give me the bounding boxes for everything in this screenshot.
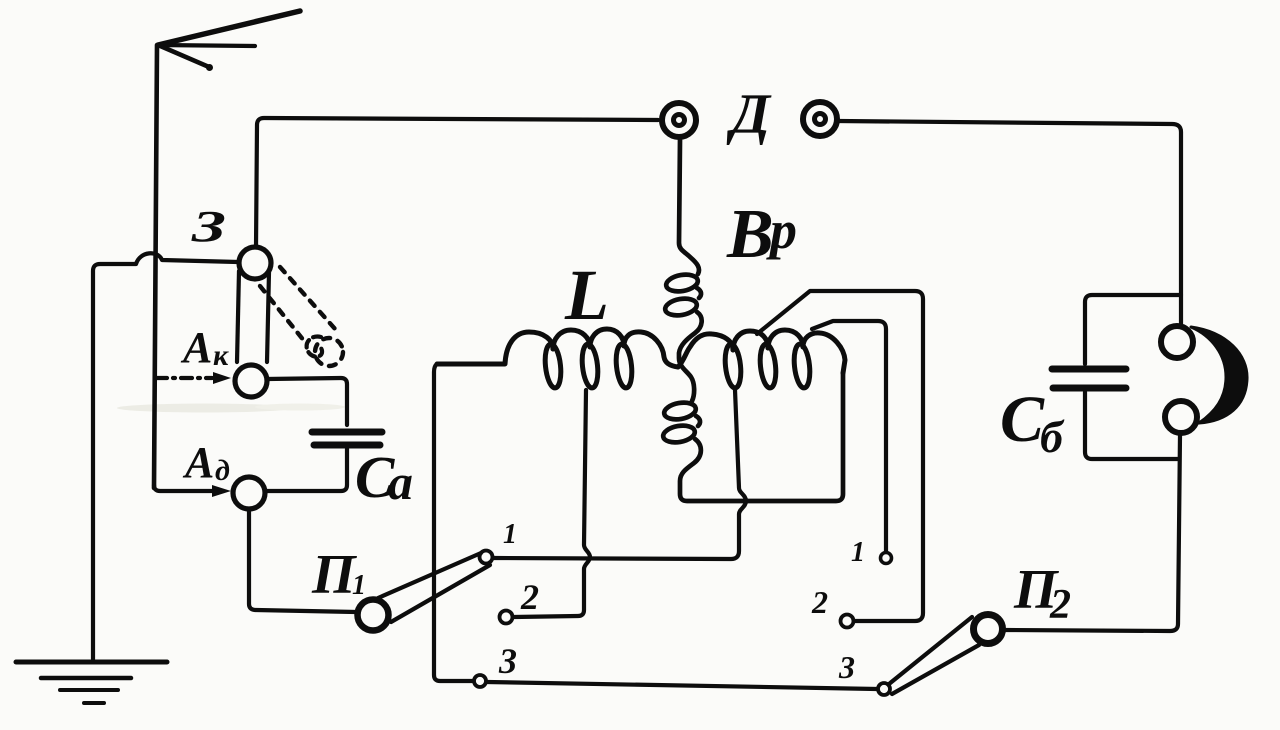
capacitor Са [312,432,382,445]
headphones [1161,326,1247,433]
svg-text:З: З [190,202,226,251]
wire contact 1 of П1 to right coil tail with hop [493,390,746,559]
terminal З (ground jack) [239,247,271,279]
svg-text:П: П [311,544,357,606]
capacitor Сб branch from phones top [1085,295,1181,364]
ground [16,662,167,703]
contact 1 of П2 [881,553,892,564]
svg-text:3: 3 [498,641,517,681]
contact 3 of П2 [878,683,890,695]
svg-text:В: В [726,196,774,273]
switch П1 pivot [358,600,389,631]
svg-text:а: а [388,454,413,510]
plug cartridge body [237,271,239,362]
svg-text:д: д [215,454,230,487]
wire L left end down to contact 3 of П1 [434,364,473,681]
svg-text:1: 1 [352,570,366,601]
wire detector right terminal to phones [838,121,1181,326]
arrowhead into Ak [213,372,231,384]
wire Ак to capacitor Са [267,378,347,425]
arrowhead into Ad [212,485,231,497]
svg-text:р: р [766,200,797,260]
terminal Ад [233,477,265,509]
capacitor Сб [1052,369,1126,388]
svg-text:1: 1 [503,519,517,550]
coil right (second half of variometer) [678,330,845,389]
wire Ад down to switch П1 [249,509,356,612]
wire tap of L down to contact 2 of П1 with hop [514,390,590,617]
switch П2 lever [889,617,972,684]
wire П2 pivot to phones [1004,435,1180,631]
contact 1 of П1 [480,551,493,564]
svg-text:3: 3 [838,649,855,685]
detector Д terminal left [662,103,696,137]
wire coil end to П2 contact 1 (lower run) [812,321,886,551]
ground wire with hop over antenna mast [93,253,238,662]
svg-text:б: б [1040,411,1065,462]
wire Сб to phones bottom [1085,392,1178,459]
wire З up to top bus and detector [256,118,658,247]
svg-text:А: А [180,323,212,372]
svg-text:А: А [182,438,214,487]
svg-text:2: 2 [1049,582,1071,628]
terminal Ак [235,365,267,397]
svg-text:2: 2 [520,577,539,617]
bottom bus contact3 П1 to contact3 П2 [487,682,877,689]
contact 2 of П2 [841,615,854,628]
coil L [437,329,678,389]
variometer Вр coil [662,140,843,501]
svg-text:2: 2 [811,584,828,620]
wire coil tap to П2 contact 2 (upper run) [757,291,923,621]
contact 3 of П1 [474,675,486,687]
alternate plug position (dashed) [260,267,343,366]
svg-text:к: к [213,339,229,372]
wire antenna mast to terminal Ad [154,485,214,491]
contact 2 of П1 [500,611,513,624]
dash-dot lead antenna to terminal Ak [156,376,212,380]
antenna [154,11,300,488]
wire Са to terminal Ад [267,449,347,491]
svg-text:С: С [1000,383,1045,456]
switch П1 lever [378,553,481,598]
svg-text:1: 1 [851,537,865,568]
curl mark [307,337,322,357]
svg-text:L: L [564,255,609,335]
detector Д terminal right [803,102,837,136]
svg-text:Д: Д [726,83,772,146]
switch П2 pivot [974,615,1003,644]
